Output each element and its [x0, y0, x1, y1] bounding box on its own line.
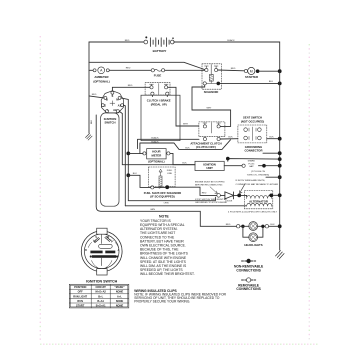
svg-text:PROPERLY SECURE YOUR WIRING.: PROPERLY SECURE YOUR WIRING.: [134, 299, 190, 303]
headlight connector right: [265, 225, 268, 228]
junction dot bus/solenoid ground: [278, 82, 282, 86]
legend non-removable symbol: [242, 259, 256, 263]
wiring clips note: [134, 293, 226, 304]
svg-text:G: G: [104, 104, 106, 108]
wire solenoid to starter: [218, 69, 245, 72]
wire clutch/brake bottom row 2: [140, 140, 231, 154]
wire solenoid ground to bus: [220, 82, 280, 84]
svg-text:TWIN CYL. ENGINES): TWIN CYL. ENGINES): [247, 174, 270, 176]
junction dot bus/headlights: [278, 224, 282, 228]
junction dot hour meter tap: [126, 152, 130, 156]
perforation dots bottom: [40, 344, 318, 345]
svg-text:RUN: RUN: [77, 299, 83, 303]
wire orange accessory: [128, 175, 215, 200]
svg-text:CIRCUIT: CIRCUIT: [96, 285, 107, 289]
wire headlights to bus: [258, 225, 280, 227]
spark plug: [242, 164, 245, 167]
svg-text:A1: A1: [118, 104, 122, 108]
wire ignition unit kill to bus: [228, 159, 280, 162]
headlamp L1: [240, 222, 258, 231]
wire attachment clutch to seat switch: [220, 138, 238, 140]
svg-text:NONE: NONE: [116, 290, 124, 294]
legend removable symbol: [242, 278, 256, 282]
clutch/brake switch contacts: [150, 84, 169, 96]
arrow to diode terminal: [210, 187, 217, 194]
svg-text:BLK: BLK: [270, 224, 275, 226]
wire lamp feed loop outer: [96, 115, 236, 226]
svg-text:B+S+A1: B+S+A1: [96, 304, 106, 308]
svg-text:(2 PLUGS ON: (2 PLUGS ON: [251, 171, 265, 173]
wire fuel solenoid to diode row: [169, 187, 217, 195]
svg-text:START: START: [76, 304, 85, 308]
wire tap to hour meter: [128, 152, 143, 154]
ignition switch key tab bottom: [97, 269, 107, 275]
svg-text:RED: RED: [128, 85, 133, 87]
svg-text:FUEL: FUEL: [167, 170, 173, 172]
wire ignition S to clutch/brake switch: [112, 87, 149, 91]
ignition switch pin labels: [104, 94, 122, 112]
svg-text:CONNECTION MAY BE MADE TO EITH: CONNECTION MAY BE MADE TO EITHER: [236, 183, 279, 186]
svg-text:WILL BECOME THEIR BRIGHTEST.: WILL BECOME THEIR BRIGHTEST.: [140, 272, 195, 276]
svg-text:FUSE: FUSE: [154, 74, 162, 78]
svg-text:S: S: [112, 94, 114, 98]
svg-text:RED: RED: [92, 94, 97, 96]
svg-text:BLK: BLK: [228, 137, 233, 139]
wire lamp feed loop inner: [125, 205, 246, 207]
wire seat switch to bus: [267, 138, 280, 140]
svg-text:(NOT OCCUPIED): (NOT OCCUPIED): [241, 119, 264, 123]
svg-text:BLK: BLK: [133, 173, 138, 175]
svg-text:RED: RED: [226, 224, 231, 226]
svg-text:BLK: BLK: [91, 119, 93, 124]
wire bus alternator upper stub: [266, 176, 280, 178]
ground (left): [86, 134, 93, 141]
perforation dots left: [40, 36, 41, 340]
wire tap to fuel shut-off solenoid: [128, 175, 150, 187]
svg-text:B+A1: B+A1: [97, 299, 104, 303]
svg-text:RED: RED: [125, 40, 130, 42]
svg-text:WHT: WHT: [207, 108, 213, 110]
hour meter box: [147, 149, 166, 159]
svg-text:RED: RED: [231, 68, 236, 70]
ignition switch spokes: [110, 94, 115, 105]
junction dot diode/alternator: [237, 194, 241, 198]
solenoid coil: [209, 75, 213, 82]
alternator coil bottom: [247, 203, 272, 206]
svg-text:RED: RED: [202, 193, 207, 195]
junction dot bus alternator upper: [278, 175, 282, 179]
svg-text:(OPTIONAL): (OPTIONAL): [148, 160, 164, 164]
ignition switch S1 (schematic symbol): [101, 91, 124, 113]
svg-text:LINE: LINE: [167, 173, 172, 175]
wire ignition M down to hour meter row: [121, 98, 128, 175]
headlamp L2: [243, 226, 263, 241]
ammeter (optional): [93, 67, 109, 74]
junction dot bus/seat switch: [278, 137, 282, 141]
ignition switch bottom detail: [92, 258, 112, 268]
svg-text:"MAKE": "MAKE": [115, 285, 126, 289]
attachment clutch dashed box: [199, 122, 225, 137]
svg-text:ALTERNATOR: ALTERNATOR: [249, 199, 268, 203]
svg-text:POSITION: POSITION: [74, 285, 86, 289]
wire fuse to solenoid: [165, 69, 205, 71]
wire clutch/brake to attachment clutch loop: [168, 87, 199, 126]
junction dot headlight left: [241, 225, 244, 228]
ignition switch terminals detail: [88, 235, 118, 249]
attachment clutch contacts: [203, 123, 221, 141]
wire battery negative to right bus: [174, 42, 280, 70]
wire clutch/brake bottom row 1: [138, 95, 200, 148]
battery B1: [144, 36, 174, 46]
svg-text:GAP: GAP: [249, 165, 254, 168]
svg-text:BEFORE RECONNECTING: BEFORE RECONNECTING: [195, 185, 223, 187]
junction dot fuel tap: [126, 173, 130, 177]
svg-text:BLK: BLK: [269, 81, 274, 83]
diode D1: [217, 192, 238, 199]
ignition switch key tab top: [97, 228, 107, 234]
junction dot bus/starter: [278, 69, 282, 73]
svg-text:(CLUTCH OFF): (CLUTCH OFF): [196, 145, 216, 149]
svg-text:IGNITION SWITCH: IGNITION SWITCH: [86, 279, 118, 283]
svg-text:ENGINE MUST BE STOPPED: ENGINE MUST BE STOPPED: [195, 182, 225, 184]
svg-text:A2: A2: [113, 108, 117, 112]
svg-text:CONNECTIONS: CONNECTIONS: [236, 268, 261, 272]
wire diode to alternator: [241, 195, 247, 196]
svg-text:NONE: NONE: [116, 299, 124, 303]
svg-text:BLACK: BLACK: [151, 140, 159, 143]
svg-text:RUN LIGHT: RUN LIGHT: [73, 294, 87, 298]
clutch/brake pedal housing box: [141, 95, 180, 140]
svg-text:B: B: [106, 97, 108, 101]
svg-text:NONE: NONE: [116, 304, 124, 308]
fuse F1: [151, 69, 165, 72]
wire ignition unit to spark plug: [224, 165, 242, 167]
junction dot headlight right: [261, 225, 264, 228]
ignition switch terminal letters: [85, 237, 120, 252]
ignition switch contact bars: [90, 251, 118, 258]
svg-text:CONNECTOR: CONNECTOR: [245, 149, 263, 153]
junction dot spark wire: [262, 164, 266, 168]
solenoid contacts: [205, 65, 219, 75]
alternator dashed box: [244, 190, 272, 208]
svg-text:BLACK: BLACK: [227, 39, 235, 42]
right bus vertical: [279, 71, 281, 250]
svg-text:AMMETER: AMMETER: [94, 75, 108, 79]
svg-text:PLUG: PLUG: [248, 163, 254, 165]
wire grounding connector to bus: [263, 152, 280, 154]
alternator coil top: [247, 195, 272, 198]
svg-text:GRN: GRN: [150, 209, 155, 211]
seat switch dashed box: [238, 125, 267, 143]
junction dot bus/grounding: [278, 151, 282, 155]
fuel line arrow: [159, 169, 162, 176]
svg-text:(IF SO EQUIPPED): (IF SO EQUIPPED): [150, 195, 174, 199]
ignition switch position table frame: [69, 284, 129, 308]
svg-text:IF BOTH WIRES ARE WHITE,: IF BOTH WIRES ARE WHITE,: [236, 179, 266, 182]
table text: [73, 285, 125, 307]
svg-text:BLK: BLK: [185, 148, 190, 150]
ignition switch body outline: [101, 113, 119, 206]
headlight connector left: [237, 225, 240, 228]
wire ammeter to fuse: [89, 69, 151, 71]
wire ignition A2 down to ignition unit row: [119, 111, 195, 164]
svg-text:SOLENOID: SOLENOID: [204, 90, 219, 94]
svg-text:(PEDAL UP): (PEDAL UP): [151, 103, 167, 107]
svg-text:4 POLE MTR & (16) 3PM LIGHT CI: 4 POLE MTR & (16) 3PM LIGHT CIRCUITS ONL…: [228, 211, 278, 213]
svg-text:ORN: ORN: [164, 202, 169, 204]
svg-text:BLACK: BLACK: [151, 136, 159, 139]
svg-text:HEADLIGHTS: HEADLIGHTS: [244, 243, 262, 247]
svg-text:BATTERY: BATTERY: [153, 49, 167, 53]
svg-text:OFF: OFF: [78, 290, 84, 294]
junction dot bus/spark: [278, 164, 282, 168]
svg-text:STARTER: STARTER: [245, 75, 258, 79]
svg-text:BLK: BLK: [182, 163, 187, 165]
junction dot bus/alternator: [278, 193, 282, 197]
wire ignition A1 down to lamp loop: [124, 105, 126, 206]
wire solenoid to attachment clutch top loop: [192, 85, 231, 126]
svg-text:(OPTIONAL): (OPTIONAL): [93, 80, 109, 84]
junction dot alternator out: [269, 194, 273, 198]
svg-text:RED: RED: [126, 68, 131, 70]
svg-text:BLK: BLK: [269, 136, 274, 138]
svg-text:B+L: B+L: [98, 294, 103, 298]
wire battery positive to left bus: [89, 42, 205, 70]
wire spark plug gap to bus: [259, 165, 280, 167]
ignition unit box: [195, 161, 224, 170]
svg-text:A+L: A+L: [117, 294, 122, 298]
ignition switch rear view inner circle: [84, 234, 119, 269]
junction dot kill wire: [226, 157, 230, 161]
junction dot bus/kill: [278, 157, 282, 161]
svg-text:WHT: WHT: [183, 124, 189, 126]
starter motor M: [244, 67, 259, 74]
svg-text:M+G+A2: M+G+A2: [96, 290, 107, 294]
note paragraph: [140, 219, 195, 276]
fuel solenoid terminals: [151, 186, 154, 189]
clutch/brake switch dashed box: [145, 83, 170, 95]
svg-text:DIODE: DIODE: [225, 200, 232, 202]
svg-text:NOTE: NOTE: [159, 214, 169, 218]
svg-text:METER: METER: [152, 153, 162, 157]
ground (bus bottom): [276, 251, 285, 260]
wire alternator to bus: [269, 194, 280, 196]
wire left bus down to ignition switch / ground: [88, 62, 90, 133]
solenoid dashed box: [202, 64, 221, 89]
wire hour meter to ignition unit: [170, 153, 195, 164]
svg-text:UNIT: UNIT: [206, 166, 213, 170]
svg-text:GROUNDED TO STOP ENGINE: GROUNDED TO STOP ENGINE: [195, 202, 227, 204]
svg-text:M: M: [250, 70, 253, 74]
ignition switch rear view outer circle: [81, 231, 122, 272]
svg-text:CONNECTIONS: CONNECTIONS: [236, 287, 261, 291]
seat switch contacts: [244, 127, 261, 141]
wire starter to right bus: [259, 70, 280, 72]
fuel shut-off solenoid coil: [159, 176, 162, 189]
svg-text:SWITCH: SWITCH: [104, 121, 115, 125]
perforation dots right: [309, 44, 310, 339]
svg-text:SPARK: SPARK: [248, 160, 256, 163]
wire ignition B to left bus: [89, 96, 104, 98]
fuel solenoid dashed box: [148, 167, 175, 187]
svg-text:M: M: [107, 237, 109, 239]
hour meter terminals: [143, 152, 146, 155]
arrow to alternator terminal: [240, 184, 245, 193]
solenoid bottom terminals: [203, 81, 220, 85]
